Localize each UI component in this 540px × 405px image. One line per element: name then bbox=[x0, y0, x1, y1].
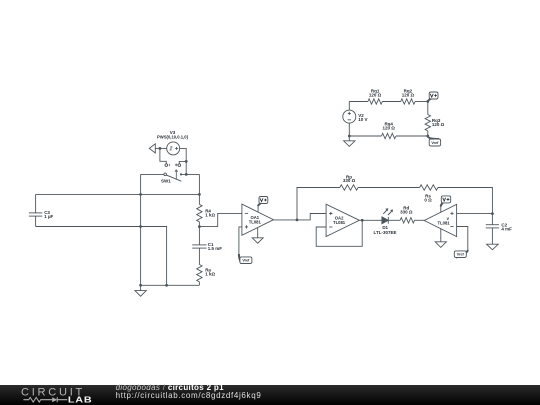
resistor Rd 330 Ohm bbox=[400, 205, 414, 223]
V+ supply pin OA3 bbox=[440, 207, 442, 213]
wire bottom edge of input loop bbox=[36, 227, 167, 286]
flag Vref OA3 bbox=[454, 250, 468, 258]
wire R4 node to OA1 inverting input bbox=[199, 213, 242, 226]
svg-text:LTL-307EE: LTL-307EE bbox=[374, 230, 397, 235]
node left of V3 bbox=[159, 147, 162, 150]
svg-text:SW1: SW1 bbox=[161, 178, 171, 183]
ground under OA1 bbox=[252, 228, 263, 243]
wire OA2 feedback loop bbox=[316, 220, 362, 246]
node A (R4 top) bbox=[198, 193, 201, 196]
wire Rp to Rs bbox=[358, 187, 420, 189]
terminal plus of V3 bbox=[175, 164, 181, 167]
wire OA3 non-inverting input bbox=[457, 213, 493, 215]
svg-text:1 kΩ: 1 kΩ bbox=[205, 212, 215, 217]
resistor Rq1 120 Ohm bbox=[368, 89, 382, 105]
wire OA2 output bbox=[359, 219, 382, 221]
wire left vertical (SW1 to ground rail) bbox=[140, 174, 142, 285]
resistor Ra 1 kOhm bbox=[197, 265, 216, 286]
wire top edge of input loop bbox=[36, 193, 200, 195]
resistor R4 1 kOhm bbox=[197, 194, 216, 226]
LED D1 LTL-307EE bbox=[374, 208, 397, 235]
svg-text:330 Ω: 330 Ω bbox=[343, 178, 356, 183]
wire LED to Rd bbox=[388, 219, 400, 221]
resistor Rp 330 Ohm bbox=[340, 174, 358, 190]
node OA3 plus input bbox=[491, 212, 494, 215]
flag V+ (top right) bbox=[428, 92, 438, 102]
V+ supply pin OA1 bbox=[257, 206, 259, 212]
ground bottom left bbox=[135, 285, 146, 296]
svg-text:4 mF: 4 mF bbox=[501, 226, 512, 231]
node ground rail left bbox=[139, 284, 142, 287]
resistor Rq2 120 Ohm bbox=[401, 89, 415, 105]
wire SW1 to node bbox=[182, 173, 199, 175]
wire SW1 node down to main node A bbox=[198, 174, 200, 194]
flag V+ OA3 bbox=[441, 196, 451, 207]
svg-text:10 V: 10 V bbox=[358, 117, 367, 122]
svg-text:330 Ω: 330 Ω bbox=[400, 210, 413, 215]
ground left of V3 bbox=[149, 144, 166, 153]
op-amp OA2 TL081 bbox=[326, 204, 359, 236]
svg-text:TL081: TL081 bbox=[249, 220, 262, 225]
node Vref bbox=[426, 135, 429, 138]
svg-text:0 Ω: 0 Ω bbox=[424, 198, 432, 203]
node R4 bottom bbox=[198, 225, 201, 228]
svg-text:TL081: TL081 bbox=[438, 221, 451, 226]
wire Rq4 to Vref node bbox=[396, 135, 428, 137]
svg-text:120 Ω: 120 Ω bbox=[432, 122, 445, 127]
wire OA1 output up to top rail bbox=[297, 188, 340, 220]
node V3 right branch bbox=[185, 160, 188, 163]
ground under C2 bbox=[487, 244, 499, 250]
op-amp v TL081 (OA3, mirrored) bbox=[424, 204, 456, 236]
CircuitLab logo bbox=[0, 384, 110, 405]
resistor Rq4 120 Ohm bbox=[382, 122, 396, 139]
node bottom edge / left vertical bbox=[139, 225, 142, 228]
voltage source V2 bbox=[343, 102, 368, 137]
svg-text:1.5 mF: 1.5 mF bbox=[208, 246, 223, 251]
node SW1 output bbox=[185, 173, 188, 176]
flag V+ OA1 bbox=[258, 197, 268, 207]
wire Rq1 to Rq2 bbox=[382, 101, 400, 103]
svg-text:120 Ω: 120 Ω bbox=[369, 92, 382, 97]
svg-text:120 Ω: 120 Ω bbox=[402, 92, 415, 97]
wire to OA2 non-inverting input bbox=[297, 214, 326, 220]
op-amp OA1 TL081 bbox=[242, 204, 274, 235]
flag Vref (top right) bbox=[428, 136, 441, 146]
wire V3 plus lead down right side bbox=[180, 148, 187, 174]
wire left vertical to SW1 bbox=[141, 173, 164, 175]
voltage source V3 PWS(0,10,0.1,0) bbox=[157, 130, 189, 155]
node OA2 output bbox=[361, 219, 364, 222]
svg-text:Vref: Vref bbox=[242, 259, 250, 263]
svg-text:Vref: Vref bbox=[457, 253, 465, 257]
capacitor C2 4 mF bbox=[486, 214, 512, 245]
svg-text:Vref: Vref bbox=[431, 141, 439, 145]
wire OA3 inverting input to Vref bbox=[457, 227, 468, 250]
node: V2 bottom junction bbox=[348, 135, 351, 138]
svg-text:LAB: LAB bbox=[68, 396, 92, 405]
svg-text:1 kΩ: 1 kΩ bbox=[205, 271, 215, 276]
capacitor C1 1.5 mF bbox=[192, 227, 222, 265]
flag Vref OA1 bbox=[239, 254, 252, 264]
node V+ bbox=[426, 100, 429, 103]
wire bottom ground rail bbox=[141, 284, 200, 286]
terminal minus of V3 bbox=[165, 164, 169, 167]
resistor Rs 0 Ohm bbox=[420, 185, 438, 203]
wire branch to plus terminal bbox=[179, 161, 186, 164]
svg-text:120 Ω: 120 Ω bbox=[383, 125, 396, 130]
resistor Rq3 120 Ohm bbox=[425, 102, 445, 137]
capacitor C3 1 uF bbox=[29, 194, 54, 226]
switch SW1 bbox=[161, 170, 182, 184]
svg-text:TL081: TL081 bbox=[333, 220, 346, 225]
wire Rq2 to V+ node bbox=[415, 101, 428, 103]
node ground rail middle bbox=[165, 284, 168, 287]
wire bottom rail V2 to Rq4 bbox=[349, 135, 381, 137]
wire Rd to OA3 output bbox=[415, 219, 425, 221]
node top edge / left vertical bbox=[139, 193, 142, 196]
node OA1 output bbox=[296, 219, 299, 222]
wire V3 minus lead down to terminal bbox=[160, 148, 166, 164]
wire OA1 non-inverting input to Vref bbox=[239, 227, 242, 254]
ground under OA3 bbox=[435, 228, 446, 247]
wire top rail to Rq1 bbox=[349, 101, 368, 103]
ground under V2 bbox=[344, 136, 355, 146]
svg-text:PWS(0,10,0.1,0): PWS(0,10,0.1,0) bbox=[157, 134, 189, 139]
svg-text:1 µF: 1 µF bbox=[44, 214, 53, 219]
wire Rs to OA3 plus node bbox=[438, 188, 493, 214]
wire OA1 output bbox=[274, 219, 298, 221]
